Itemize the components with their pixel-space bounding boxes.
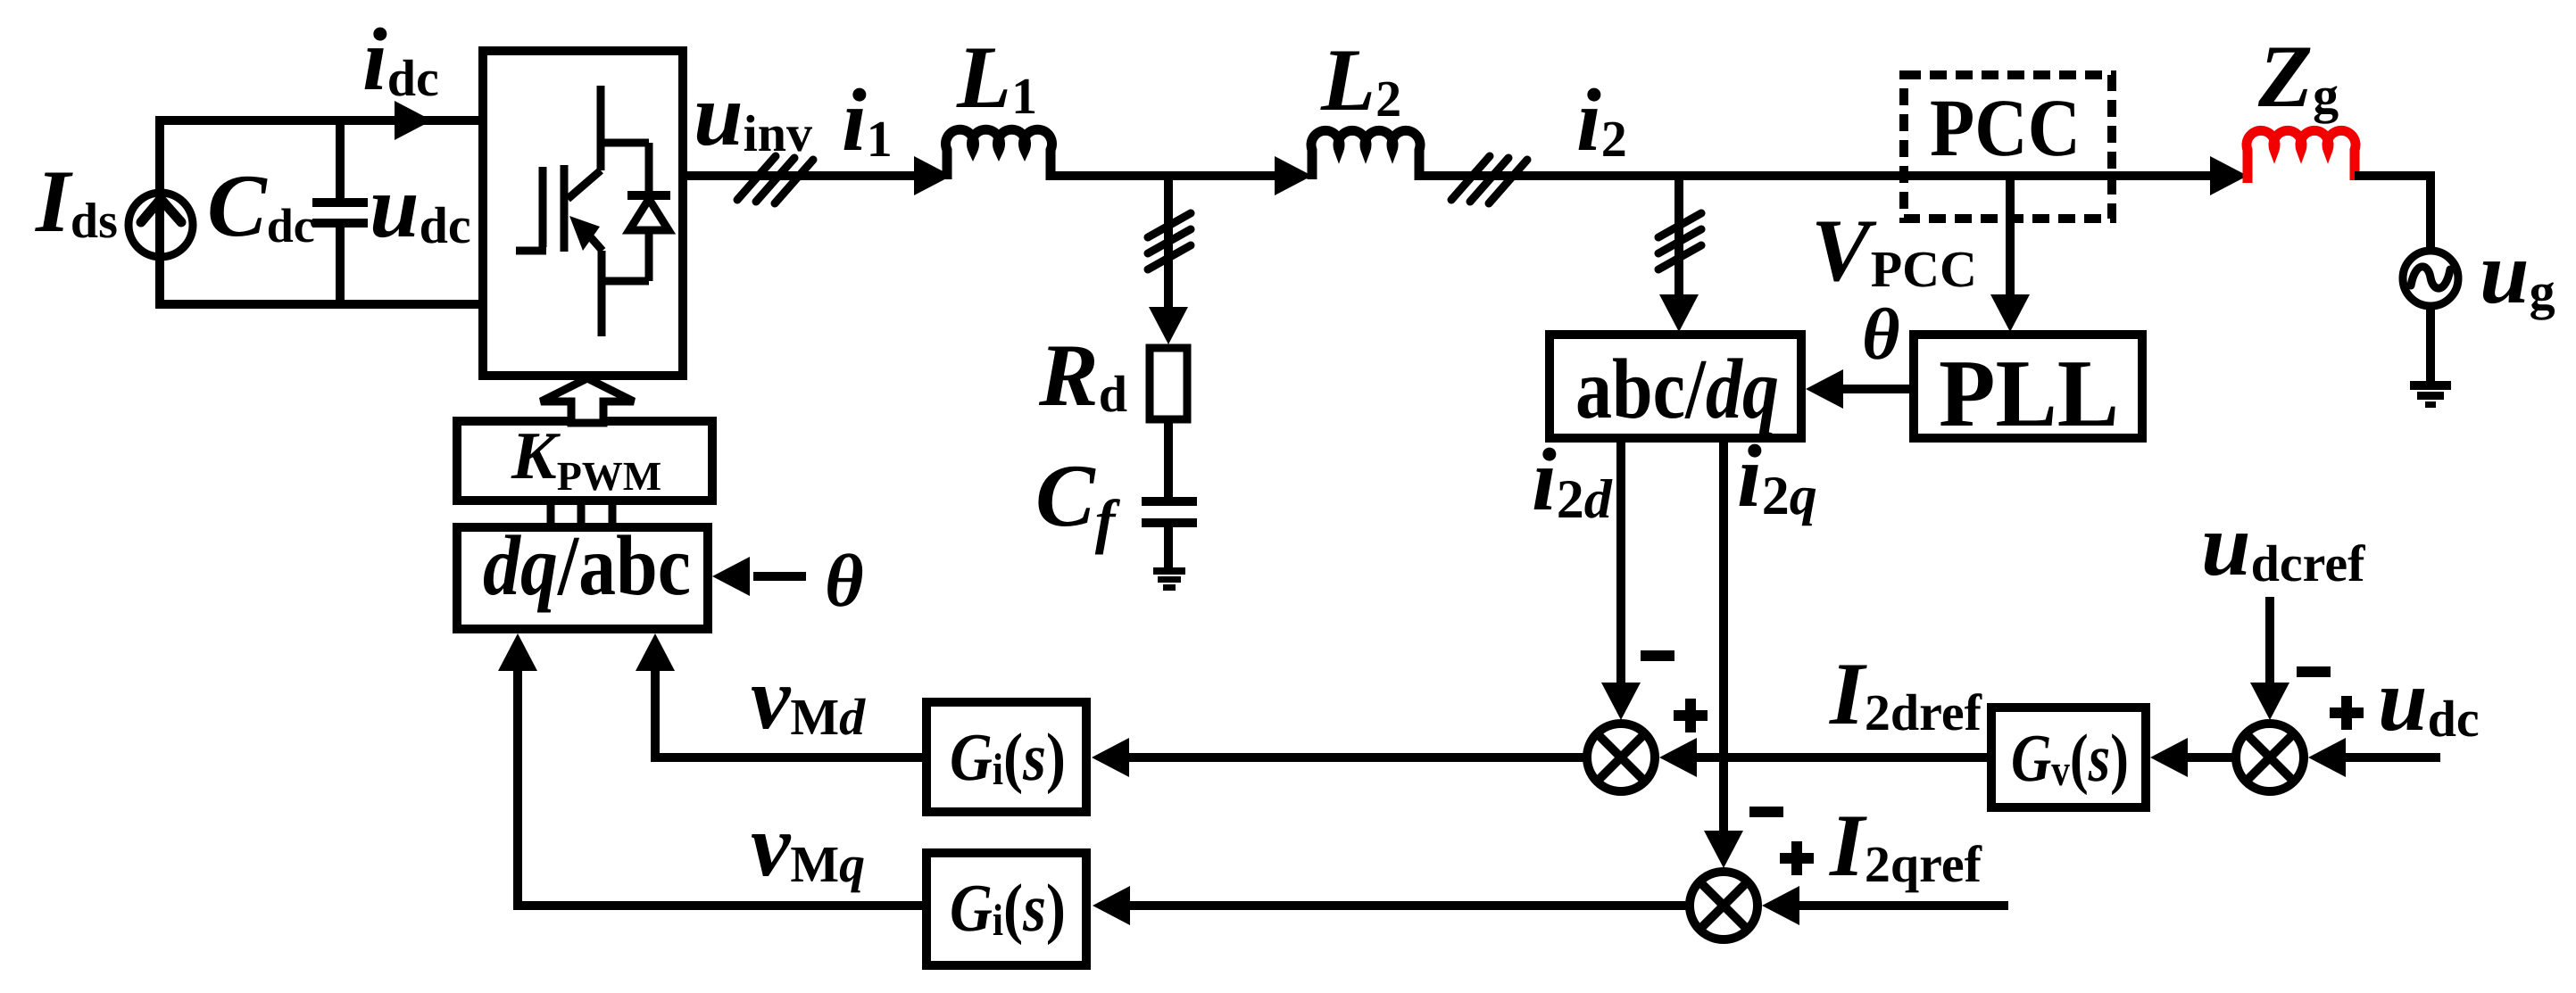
arrow i2d into J1 [1601,683,1641,720]
summing junction J3 [2236,724,2304,791]
J3 plus sign [2330,696,2364,730]
box Gi2 [927,853,1086,965]
capacitor Cdc plates [312,198,368,207]
wire Gi2 to dq/abc [518,667,927,906]
arrow i1 into L1 [914,156,951,195]
J2 plus sign [1780,841,1814,875]
svg-text:PCC: PCC [1930,82,2081,173]
arrow into PLL [1990,294,2030,332]
svg-text:θ: θ [825,540,864,623]
wire udcref down [2265,597,2274,687]
arrow theta into dq/abc [712,557,750,596]
wire capacitor branch lower [336,227,345,304]
wire left vertical through current source [155,116,164,304]
arrow into J1 right [1659,738,1697,777]
J1 minus sign [1641,650,1674,661]
arrow udcref into J3 [2250,683,2289,720]
box Gi1 [927,702,1086,812]
box PLL [1914,335,2142,438]
box dq/abc [457,527,708,629]
arrow I2qref into J2 [1762,886,1799,925]
J2 minus sign [1749,807,1783,817]
theta wire into dq/abc [753,572,806,581]
transistor Q1 IGBT with gate and diode leads [516,86,649,336]
wire Gv output to J1 [1683,753,1991,762]
wire Zg to source [2355,176,2431,251]
arrow into Rd [1149,307,1188,344]
resistor Rd [1150,348,1187,419]
J3 minus sign [2297,666,2331,677]
slash marks after L2 [1451,156,1527,203]
slash marks filter branch [1148,213,1191,269]
wire I2qref into J2 [1783,901,2008,910]
capacitor Cf plates [1142,497,1197,506]
IGBT diode cathode bar [627,191,670,200]
wire PLL to abc/dq [1830,385,1914,393]
PCC dashed box [1904,75,2112,219]
summing junction J1 [1587,724,1655,791]
svg-text:PLL: PLL [1939,341,2119,447]
arrow i2q into J2 [1704,831,1743,868]
wire udc into J3 [2330,753,2440,762]
arrow vMd into dq/abc [636,633,675,671]
wire bottom-left dc return [155,300,483,309]
arrow PLL to abc/dq [1806,369,1843,409]
wire ug to ground [2426,306,2435,384]
wire L2 to grid [1419,171,2227,180]
svg-text:Gi(s): Gi(s) [950,871,1066,946]
arrow into Gv [2150,738,2188,777]
ground Cf [1153,567,1185,591]
wire J3 to Gv [2171,753,2232,762]
box abc/dq [1550,335,1801,438]
inductor L1 [946,129,1052,180]
wire Cf to ground [1164,523,1173,568]
inductor Zg red [2247,130,2356,183]
svg-text:Gi(s): Gi(s) [950,720,1066,795]
arrow vMq into dq/abc [498,633,537,671]
current source arrow chevron [141,199,181,222]
inductor L2 [1311,130,1420,180]
arrow udc into J3 [2308,738,2346,777]
summing junction J2 [1690,872,1757,939]
slash marks 3-phase inverter output [737,156,813,203]
node i2 sense branch [1674,176,1683,296]
current source Ids circle [129,193,193,257]
wire capacitor branch upper [336,120,345,198]
wire J1 to Gi1 [1116,753,1587,762]
arrow into abc/dq [1659,294,1699,332]
svg-text:θ: θ [1862,294,1900,375]
svg-text:Gv(s): Gv(s) [2011,721,2129,796]
IGBT emitter arrow [569,216,600,251]
ac source sine [2411,267,2450,288]
IGBT diode triangle [629,199,669,230]
pwm connector bars [551,501,612,527]
wire top-left dc bus [155,116,483,125]
arrow into Gi1 [1092,738,1129,777]
block arrow KPWM to inverter [541,378,634,423]
wire inverter output [683,171,933,180]
wire L1 to L2 [1051,171,1292,180]
svg-text:dq/abc: dq/abc [483,517,691,613]
wire PCC to PLL [2006,176,2015,296]
arrow before Zg [2210,156,2248,195]
box KPWM [457,421,712,501]
arrow into Gi2 [1093,886,1130,925]
wire i2d [1616,438,1625,687]
J1 plus sign [1674,699,1708,732]
arrow into L2 [1275,156,1312,195]
arrow idc [395,101,432,140]
slash marks i2 branch [1658,213,1701,269]
inverter box [483,51,683,376]
svg-text:abc/dq: abc/dq [1575,341,1779,436]
wire Gi1 to dq/abc [655,667,927,757]
wire J2 to Gi2 [1116,901,1690,910]
wire Rd to Cf [1164,419,1173,497]
wire i2q [1719,438,1728,835]
node filter branch [1164,176,1173,309]
ac source ug [2403,251,2458,306]
ground ug [2410,381,2451,408]
box Gv [1991,708,2146,807]
